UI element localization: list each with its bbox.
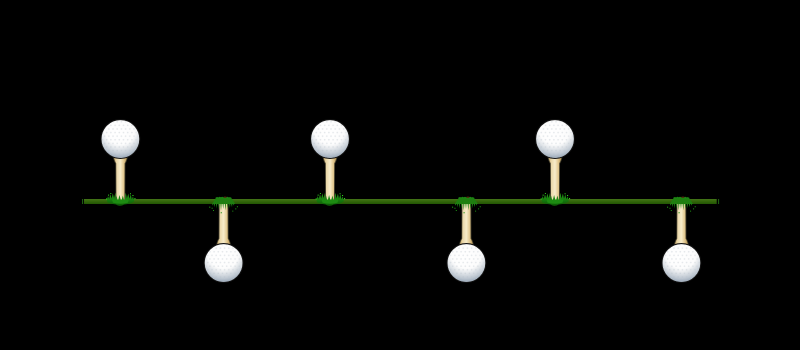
- bar right end tick: [718, 199, 719, 204]
- golf ball on tee 4 (down): [204, 197, 243, 283]
- timeline bar: [84, 199, 717, 204]
- golf ball on tee 2 (up): [311, 120, 350, 206]
- golf ball on tee 6 (down): [662, 197, 701, 283]
- bar left end tick: [82, 199, 83, 204]
- golf ball on tee 1 (up): [101, 120, 140, 206]
- golf ball on tee 5 (down): [447, 197, 486, 283]
- golf ball on tee 3 (up): [536, 120, 575, 206]
